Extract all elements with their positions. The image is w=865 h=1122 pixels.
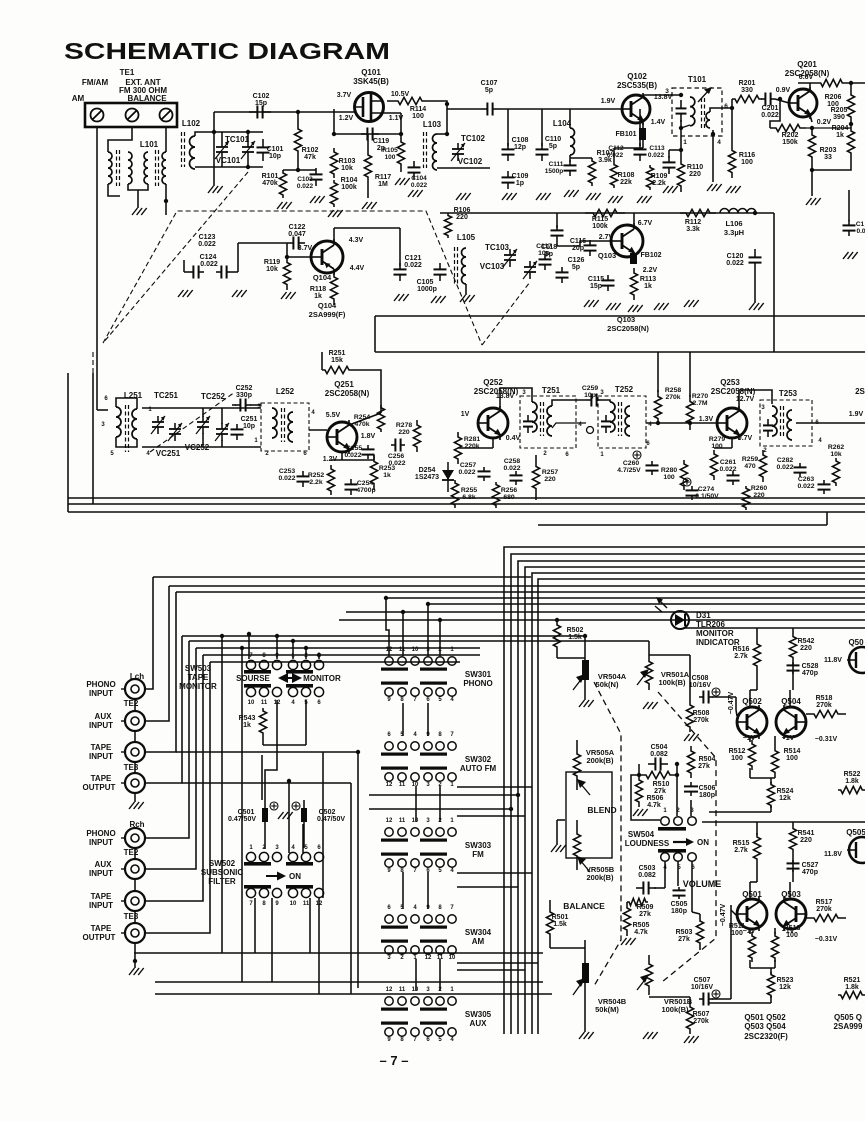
ground c104 [408, 190, 414, 197]
wire mesh h top3 [210, 661, 460, 663]
node q104b [285, 255, 289, 259]
wire tapeout L long [182, 782, 351, 784]
wire q102 collector [643, 94, 681, 96]
ground c123 [178, 290, 184, 297]
capacitor C528 [792, 662, 794, 665]
wire sw504 c4 down [664, 861, 666, 888]
ground r105 [395, 178, 401, 185]
wire r202 vert [770, 99, 780, 128]
resistor VR505A [573, 740, 580, 790]
wire c120 down [754, 271, 756, 303]
svg-text:C503: C503 [639, 865, 656, 872]
svg-text:6.6V: 6.6V [799, 74, 814, 81]
wire l105 bottom [465, 284, 467, 295]
capacitor C211 partial [848, 190, 850, 221]
resistor R542 [789, 634, 796, 660]
wire swgap v3 [415, 786, 417, 822]
wire L101 w1 bottom [108, 184, 120, 196]
trimmer TC102 [457, 143, 459, 149]
wire sw504 c1 loop [631, 775, 660, 820]
svg-text:R116: R116 [739, 152, 755, 159]
svg-text:Q104: Q104 [313, 273, 332, 282]
svg-text:0.022: 0.022 [797, 483, 814, 490]
svg-text:C201: C201 [762, 105, 779, 112]
svg-text:R118: R118 [310, 286, 326, 293]
svg-text:MONITOR: MONITOR [303, 674, 341, 683]
svg-text:330p: 330p [236, 392, 252, 399]
resistor R543 [259, 708, 266, 736]
svg-text:BALANCE: BALANCE [563, 901, 605, 911]
resistor R106 [444, 213, 451, 238]
svg-text:SW504: SW504 [628, 830, 655, 839]
wire q252 to t251 [500, 388, 532, 408]
svg-text:– 7 –: – 7 – [380, 1053, 409, 1068]
svg-text:1.2V: 1.2V [339, 115, 354, 122]
svg-text:220: 220 [800, 645, 812, 652]
svg-text:11: 11 [399, 987, 406, 993]
bus wire 1 [504, 547, 865, 1034]
wire c504 r510 frame [638, 764, 640, 775]
wire t251 out [552, 423, 586, 428]
SW301 contacts top [385, 657, 393, 665]
svg-text:1.9V: 1.9V [849, 411, 864, 418]
wire sw301 pin12 drop [386, 598, 389, 656]
svg-text:12k: 12k [779, 795, 791, 802]
svg-text:6.7V: 6.7V [638, 220, 653, 227]
core L103 [423, 132, 425, 168]
transistor Q253 [717, 408, 747, 438]
SW303 bar2b [420, 853, 447, 856]
capacitor C116 [589, 240, 591, 245]
svg-text:470p: 470p [802, 869, 818, 876]
svg-text:C102: C102 [253, 93, 270, 100]
svg-text:TE3: TE3 [124, 763, 139, 772]
wire sw503 pin2 drop [305, 648, 307, 659]
resistor R512 [748, 740, 755, 770]
node q101 out [445, 102, 449, 106]
bus wire 12 led line [339, 619, 865, 621]
wire aux R up [145, 648, 196, 869]
SW301 bar1b [420, 668, 447, 671]
wire t101 pin1 down [680, 128, 682, 158]
svg-text:2.2k: 2.2k [309, 479, 322, 486]
svg-text:20p: 20p [572, 245, 584, 252]
svg-text:5p: 5p [485, 87, 493, 94]
resistor R201 [732, 95, 762, 102]
svg-text:100: 100 [731, 755, 743, 762]
svg-text:TAPE: TAPE [91, 743, 112, 752]
wiper VR501A [637, 672, 647, 685]
svg-text:L105: L105 [457, 233, 476, 242]
svg-text:50k(N): 50k(N) [596, 680, 619, 689]
coil L101 winding 1 [108, 152, 112, 184]
svg-text:R258: R258 [665, 387, 681, 394]
capacitor C504 [648, 763, 655, 765]
svg-text:0.022: 0.022 [388, 460, 405, 467]
svg-text:R201: R201 [739, 80, 756, 87]
wire L101 center tap [137, 190, 139, 208]
svg-text:200k(B): 200k(B) [586, 873, 614, 882]
svg-text:1V: 1V [461, 411, 470, 418]
wire r114 to node [433, 101, 460, 109]
wire mid rail [440, 212, 755, 214]
wire sw301 pin11 drop [402, 612, 404, 656]
resistor R507 [686, 1002, 693, 1034]
svg-text:100: 100 [741, 159, 753, 166]
svg-text:Q102: Q102 [627, 72, 647, 81]
jack tape in R [125, 891, 145, 911]
svg-text:0.022: 0.022 [278, 475, 295, 482]
svg-text:INPUT: INPUT [89, 721, 113, 730]
wire bus mid c [182, 635, 585, 637]
svg-text:11: 11 [303, 901, 310, 907]
plus c501 [270, 802, 278, 810]
svg-text:2S: 2S [855, 387, 865, 396]
resistor R508 [686, 700, 693, 732]
svg-text:C508: C508 [692, 675, 709, 682]
svg-text:C107: C107 [481, 80, 498, 87]
svg-text:R115: R115 [592, 216, 608, 223]
svg-text:VC103: VC103 [480, 262, 505, 271]
wire L102 bottom [195, 166, 214, 168]
svg-text:R279: R279 [709, 436, 725, 443]
dashed diag gang [103, 172, 248, 343]
svg-text:27k: 27k [639, 911, 651, 918]
transistor Q502 [737, 707, 767, 737]
svg-text:Q502: Q502 [742, 697, 762, 706]
sw503 row1 bar a [244, 670, 271, 674]
svg-text:220k: 220k [464, 443, 479, 450]
svg-text:100: 100 [731, 930, 743, 937]
ground vr504b [579, 1032, 585, 1039]
wiper VR504A [573, 677, 583, 690]
svg-text:100: 100 [786, 932, 798, 939]
svg-text:3.7V: 3.7V [337, 92, 352, 99]
svg-text:R281: R281 [464, 436, 480, 443]
capacitor C118 [544, 254, 546, 259]
wire vr504a feed [584, 636, 586, 652]
capacitor C102 [249, 111, 257, 113]
svg-text:C103: C103 [297, 176, 313, 183]
open pin [587, 427, 594, 434]
svg-text:3: 3 [665, 88, 669, 95]
wire q252 emitter [492, 438, 494, 448]
svg-text:470k: 470k [262, 180, 278, 187]
resistor R522 [838, 786, 865, 793]
resistor R204 [847, 126, 854, 158]
wire sw stub r5 [457, 872, 532, 874]
wire sw502 out2 [271, 898, 273, 982]
svg-text:FILTER: FILTER [208, 877, 236, 886]
svg-text:AUX: AUX [470, 1019, 488, 1028]
svg-text:270k: 270k [693, 1018, 709, 1025]
svg-text:TC251: TC251 [154, 391, 179, 400]
svg-text:R542: R542 [798, 638, 815, 645]
coil L105 [462, 248, 467, 284]
transistor Q501 [737, 899, 767, 929]
svg-text:TE2: TE2 [124, 699, 139, 708]
wire mesh vert b [241, 648, 243, 982]
svg-text:470p: 470p [802, 670, 818, 677]
svg-text:C255: C255 [346, 445, 362, 452]
wire q251 collector [349, 413, 381, 425]
svg-text:C123: C123 [199, 234, 216, 241]
svg-text:VC252: VC252 [185, 443, 210, 452]
core T252 [618, 402, 620, 436]
SW305 contacts bottom [385, 1028, 393, 1036]
wire c252 leads [232, 404, 236, 406]
svg-text:C118: C118 [541, 244, 557, 251]
svg-text:0.9V: 0.9V [776, 87, 791, 94]
resistor VR505B [573, 820, 580, 870]
node jacks R [133, 959, 137, 963]
wire q103 base [557, 241, 611, 246]
wire vr501b to c507 [649, 996, 690, 998]
wire t101 sec out [710, 108, 732, 112]
wire l251 frame [116, 398, 137, 409]
svg-text:200k(B): 200k(B) [586, 756, 614, 765]
svg-text:10: 10 [412, 782, 419, 788]
ground r116 [726, 186, 732, 193]
svg-text:R110: R110 [687, 164, 703, 171]
wire q253 emitter [731, 438, 733, 448]
wire swgap v6 [427, 872, 429, 909]
wire r251 feed [321, 352, 323, 370]
transformer L252 box [261, 403, 309, 451]
svg-text:10p: 10p [243, 423, 255, 430]
sw502 row1 bar b [286, 862, 313, 866]
svg-text:R509: R509 [637, 904, 654, 911]
wire sw301 pin2 drop [439, 620, 441, 656]
arrow source monitor [278, 673, 288, 683]
ground t101 p4 [707, 184, 713, 191]
resistor R256 [492, 482, 499, 508]
coil L101 winding 3 [144, 152, 148, 184]
core L105 [454, 247, 456, 285]
capacitor T253 tune [767, 419, 769, 425]
svg-text:C116: C116 [570, 238, 586, 245]
svg-text:INPUT: INPUT [89, 689, 113, 698]
capacitor C251 [236, 424, 238, 429]
svg-text:150k: 150k [782, 139, 798, 146]
wire q201 col [809, 83, 811, 91]
svg-text:INPUT: INPUT [89, 901, 113, 910]
wire c108 c110 stubs [507, 109, 509, 146]
svg-text:C256: C256 [388, 453, 404, 460]
wire l103 top [437, 133, 447, 135]
svg-text:R112: R112 [685, 219, 701, 226]
capacitor C123 [188, 271, 193, 273]
svg-text:15k: 15k [331, 357, 343, 364]
core L102 [181, 132, 183, 167]
wire t101 out down [731, 108, 733, 145]
jack tape out R [125, 923, 145, 943]
SW304 bar1b [420, 926, 447, 929]
capacitor C107 [481, 108, 487, 110]
SW305 bar2a [381, 1022, 408, 1025]
svg-text:6: 6 [724, 103, 728, 110]
resistor R270 [686, 395, 693, 430]
sw504 contacts top [661, 817, 670, 826]
svg-text:10p: 10p [269, 153, 281, 160]
wire mesh vert f [322, 752, 324, 898]
svg-text:100k(B): 100k(B) [658, 678, 686, 687]
capacitor C259 [586, 399, 591, 401]
svg-text:R278: R278 [396, 422, 412, 429]
svg-text:33: 33 [824, 154, 832, 161]
svg-text:Q253: Q253 [720, 378, 740, 387]
svg-text:Q104: Q104 [318, 301, 337, 310]
svg-text:R102: R102 [302, 147, 319, 154]
svg-text:2SC2058(N): 2SC2058(N) [607, 324, 649, 333]
svg-text:R516: R516 [733, 646, 750, 653]
resistor R509 [627, 898, 648, 905]
ground r117 [362, 202, 368, 209]
svg-text:R251: R251 [329, 350, 346, 357]
wire fm bottom border [375, 315, 865, 317]
SW305 contacts top [385, 997, 393, 1005]
node r205 top [849, 81, 853, 85]
wire q201 emitter [810, 115, 812, 122]
svg-text:VC101: VC101 [216, 156, 241, 165]
svg-text:1.4V: 1.4V [651, 119, 666, 126]
svg-text:1k: 1k [836, 132, 844, 139]
wire emitters ch2 [749, 928, 751, 934]
wire if bus1 [68, 497, 865, 499]
wire r502 [556, 652, 558, 658]
svg-text:−0.31V: −0.31V [815, 936, 838, 943]
capacitor C254 [350, 479, 352, 484]
wire q101 g2 down [383, 112, 401, 114]
svg-text:0.022: 0.022 [648, 152, 665, 159]
svg-text:C101: C101 [267, 146, 284, 153]
sw503 row2 bar a [244, 684, 271, 688]
svg-text:1.8V: 1.8V [361, 433, 376, 440]
svg-text:C257: C257 [460, 462, 476, 469]
bus wire 2 [511, 554, 865, 1034]
bus wire 9 [386, 597, 865, 599]
node r203 r204 [810, 168, 814, 172]
coil T252 pri [610, 402, 615, 432]
node drop dots [384, 596, 388, 600]
wire tank2 rails [437, 167, 490, 169]
resistor R112 [680, 209, 716, 216]
wire sw503 pin1 drop [292, 641, 294, 659]
wire sw504 c6 down [691, 861, 693, 912]
svg-text:270k: 270k [693, 717, 709, 724]
node tapeout L [287, 779, 291, 783]
wire L101 bottoms [128, 184, 148, 190]
resistor R203 [808, 130, 815, 162]
trimmer TC101 [221, 141, 223, 147]
node rail r102 [296, 110, 300, 114]
svg-text:R522: R522 [844, 771, 861, 778]
svg-text:C259: C259 [582, 385, 598, 392]
svg-text:INPUT: INPUT [89, 869, 113, 878]
node q201 base [778, 97, 782, 101]
coil L252 pri [272, 408, 277, 438]
node t252 out [656, 421, 660, 425]
ground c124 [232, 290, 238, 297]
svg-text:1.8k: 1.8k [845, 778, 859, 785]
wire c112 stub [639, 109, 641, 146]
svg-text:390: 390 [833, 114, 845, 121]
svg-text:10: 10 [248, 700, 255, 706]
transformer T101 box [672, 88, 722, 136]
svg-text:5p: 5p [572, 264, 580, 271]
wire r270 top [689, 352, 691, 397]
svg-text:C124: C124 [200, 254, 217, 261]
wire q101 g1 down [333, 109, 335, 134]
svg-text:SW302: SW302 [465, 755, 492, 764]
svg-text:1: 1 [683, 139, 687, 146]
capacitor C115 [607, 275, 609, 280]
svg-text:Q251: Q251 [334, 380, 354, 389]
resistor R260 [742, 486, 749, 510]
svg-text:4.7/25V: 4.7/25V [617, 467, 641, 474]
screw terminal FM center [126, 109, 139, 122]
svg-text:12: 12 [425, 955, 432, 961]
svg-text:C502: C502 [319, 809, 336, 816]
SW302 bar2a [381, 767, 408, 770]
pot VR504B [582, 963, 589, 983]
resistor R205 [847, 90, 854, 122]
svg-text:4.7k: 4.7k [634, 929, 648, 936]
node vr504a feed [583, 634, 587, 638]
svg-text:12: 12 [386, 782, 393, 788]
wire mesh vert d [288, 781, 290, 853]
transistor Q201 [789, 89, 817, 117]
capacitor C113 [668, 156, 670, 162]
wire bias lr [283, 169, 316, 171]
svg-text:11.8V: 11.8V [824, 851, 842, 858]
wire c123 c124 [184, 271, 188, 273]
capacitor C108 [507, 143, 509, 149]
svg-text:330: 330 [741, 87, 753, 94]
bead FB102 [630, 253, 637, 264]
wire c119 rail [334, 133, 401, 135]
svg-text:R113: R113 [640, 276, 656, 283]
wire sw stub r1 [457, 786, 532, 788]
capacitor C120 [754, 249, 756, 257]
wire bottom h1 [134, 952, 543, 954]
wire balance terminal down [165, 127, 167, 152]
svg-text:2SC2058(N): 2SC2058(N) [711, 387, 756, 396]
svg-text:2SC535(B): 2SC535(B) [617, 81, 657, 90]
SW305 bar1a [381, 1008, 408, 1011]
resistor R518 [806, 710, 846, 717]
svg-text:R515: R515 [733, 840, 750, 847]
node t101 out [730, 106, 734, 110]
svg-text:R260: R260 [751, 485, 767, 492]
svg-text:MONITOR: MONITOR [179, 682, 217, 691]
svg-text:11: 11 [437, 955, 444, 961]
svg-text:100: 100 [711, 443, 723, 450]
SW303 bar1b [420, 839, 447, 842]
svg-text:1k: 1k [383, 472, 391, 479]
wire c502 up [303, 830, 305, 848]
sw503 row2 contacts [246, 687, 255, 696]
capacitor C263 [823, 480, 825, 484]
resistor R252 [327, 465, 334, 495]
resistor VR501B [645, 955, 652, 995]
wire am tank rail top [142, 407, 261, 409]
svg-text:TAPE: TAPE [91, 892, 112, 901]
svg-text:TC101: TC101 [225, 135, 250, 144]
capacitor C201 [761, 98, 765, 100]
wiper VR505B [580, 860, 590, 872]
svg-text:2.7V: 2.7V [599, 234, 614, 241]
